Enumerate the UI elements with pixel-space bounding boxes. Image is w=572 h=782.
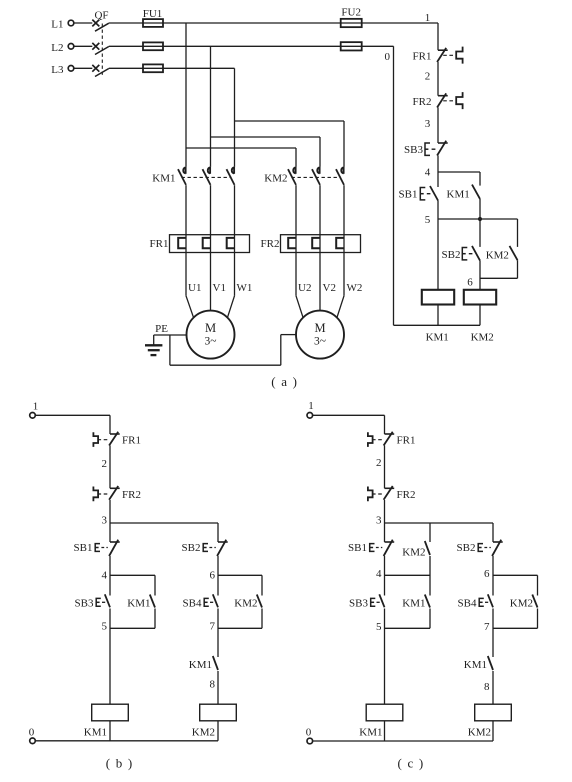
- svg-text:FR2: FR2: [413, 96, 432, 108]
- label SB3: [404, 144, 423, 156]
- pushbutton SB4 (c): [479, 594, 493, 607]
- svg-text:8: 8: [210, 678, 216, 690]
- wire node 3 (c): [385, 523, 494, 542]
- wire FR1 to motor M1: [186, 253, 235, 318]
- label SB1 (b): [74, 542, 93, 554]
- svg-text:M: M: [314, 321, 325, 335]
- svg-text:FU2: FU2: [341, 6, 361, 18]
- wire 4 (c): [384, 556, 386, 596]
- wire KM2 aux drop: [517, 219, 519, 247]
- contact KM1 interlock (c): [488, 656, 493, 670]
- wire drop phase A: [185, 23, 187, 167]
- svg-text:SB2: SB2: [442, 249, 461, 261]
- svg-text:L2: L2: [51, 42, 63, 54]
- breaker QF pole 1: [92, 20, 109, 32]
- node 7 label (c): [484, 621, 490, 633]
- svg-text:KM2: KM2: [192, 727, 215, 739]
- wire rail 2-3: [437, 108, 439, 144]
- wire L2 run: [163, 45, 341, 47]
- contactor KM1 main contact 2: [203, 167, 211, 185]
- wire 6 (c): [492, 556, 494, 596]
- wire coil KM2 bottom (b): [217, 721, 219, 741]
- svg-text:L1: L1: [51, 19, 63, 31]
- node 1 label (c): [308, 400, 314, 412]
- svg-text:SB2: SB2: [182, 542, 201, 554]
- wire 4 (b): [109, 556, 111, 596]
- wire node 3 (b): [110, 523, 218, 542]
- svg-text:PE: PE: [155, 323, 168, 335]
- label coil KM1 (b): [84, 727, 107, 739]
- svg-text:SB2: SB2: [457, 542, 476, 554]
- label KM2 aux (c): [510, 597, 533, 609]
- node 4 label (b): [102, 570, 108, 582]
- wire 5 (c): [384, 609, 386, 705]
- label KM1 contacts: [152, 173, 175, 185]
- contact KM2 aux (b): [257, 595, 262, 608]
- wire bottom (b): [35, 740, 218, 742]
- motor M1: [187, 311, 235, 359]
- motor M2: [296, 311, 344, 359]
- wire feed KM2 phase A: [186, 148, 296, 167]
- contactor KM1 linkage: [182, 176, 232, 178]
- coil KM1 (b): [92, 704, 129, 721]
- wire node 5 (c): [385, 609, 431, 629]
- wire 3 (b): [109, 500, 111, 542]
- label SB4 (b): [183, 597, 202, 609]
- node 6 label (b): [210, 570, 216, 582]
- svg-text:4: 4: [425, 167, 431, 179]
- fuse FU2 pole 2: [341, 42, 363, 50]
- contactor KM2 main contact 2: [312, 167, 320, 185]
- svg-text:SB1: SB1: [399, 189, 418, 201]
- svg-text:3~: 3~: [205, 336, 217, 348]
- label SB1 (c): [348, 542, 367, 554]
- svg-text:FR1: FR1: [122, 435, 141, 447]
- svg-text:2: 2: [376, 457, 382, 469]
- svg-text:5: 5: [376, 621, 382, 633]
- label coil KM1 (c): [359, 727, 382, 739]
- coil KM1: [422, 290, 454, 305]
- svg-text:KM1: KM1: [152, 173, 175, 185]
- svg-text:1: 1: [308, 400, 314, 412]
- svg-text:KM1: KM1: [402, 597, 425, 609]
- node 4 label (c): [376, 568, 382, 580]
- label V1: [213, 282, 226, 294]
- svg-text:( a ): ( a ): [271, 374, 298, 389]
- svg-text:0: 0: [29, 726, 35, 738]
- wire rail 0: [393, 46, 395, 325]
- label FU1: [143, 8, 163, 20]
- node 3 label: [425, 118, 431, 130]
- wire KM1 contact 1 to FR1: [185, 185, 187, 235]
- svg-text:2: 2: [102, 458, 108, 470]
- svg-text:FR2: FR2: [397, 489, 416, 501]
- node 1 label (b): [33, 401, 39, 413]
- node 8 label (c): [484, 681, 490, 693]
- svg-text:SB4: SB4: [458, 597, 477, 609]
- node 6 label (c): [484, 568, 490, 580]
- svg-text:KM1: KM1: [127, 597, 150, 609]
- contact KM1 interlock (b): [213, 656, 218, 670]
- svg-text:KM1: KM1: [447, 189, 470, 201]
- wire node 5 branch: [438, 199, 518, 219]
- node 0 label: [385, 51, 391, 63]
- label KM2 contacts: [264, 173, 287, 185]
- svg-text:U2: U2: [298, 282, 311, 294]
- svg-text:KM1: KM1: [464, 659, 487, 671]
- label U2: [298, 282, 311, 294]
- label FR2 contact: [413, 96, 432, 108]
- junction node 5: [478, 217, 482, 221]
- wire bottom (c): [313, 740, 494, 742]
- label FR1 heaters: [150, 238, 169, 250]
- wire 5 (b): [109, 609, 111, 705]
- wire 2 (b): [109, 446, 111, 489]
- breaker QF pole 2: [92, 43, 109, 55]
- svg-text:0: 0: [306, 726, 312, 738]
- svg-text:SB1: SB1: [74, 542, 93, 554]
- node 3 label (c): [376, 515, 382, 527]
- label FR2 heaters: [261, 238, 280, 250]
- svg-text:KM1: KM1: [426, 332, 449, 344]
- svg-text:0: 0: [385, 51, 391, 63]
- wire SB2 drop: [479, 219, 481, 247]
- wire coil KM2 bottom (c): [492, 721, 494, 741]
- pushbutton SB1: [420, 186, 438, 201]
- label FR2 (b): [122, 489, 141, 501]
- fuse FU1 pole 1: [143, 19, 163, 27]
- node 5 label: [425, 214, 431, 226]
- svg-text:QF: QF: [94, 9, 108, 21]
- contactor KM1 main contact 1: [178, 167, 186, 185]
- thermal contact FR1 (b): [93, 432, 119, 447]
- label SB4 (c): [458, 597, 477, 609]
- thermal relay FR1 heaters: [170, 235, 250, 253]
- svg-text:8: 8: [484, 681, 490, 693]
- wire top (c): [313, 415, 385, 434]
- label PE: [155, 323, 168, 335]
- wire 2 (c): [384, 446, 386, 489]
- pushbutton SB3 (b): [96, 594, 110, 607]
- wire L2 to rail 0: [362, 45, 394, 47]
- svg-text:L3: L3: [51, 64, 64, 76]
- svg-text:( b ): ( b ): [106, 756, 134, 771]
- svg-text:5: 5: [425, 214, 431, 226]
- terminal L2: [51, 42, 74, 54]
- label FR1 contact: [413, 51, 432, 63]
- svg-text:3: 3: [425, 118, 431, 130]
- wire 8 (b): [217, 671, 219, 704]
- pushbutton SB4 (b): [204, 594, 218, 607]
- terminal 1 (b): [30, 413, 36, 419]
- svg-text:4: 4: [376, 568, 382, 580]
- label KM1 aux: [447, 189, 470, 201]
- svg-text:KM2: KM2: [471, 331, 494, 343]
- pushbutton SB2: [462, 246, 480, 261]
- svg-text:FU1: FU1: [143, 8, 163, 20]
- node 6 label: [467, 277, 473, 289]
- node 4 label: [425, 167, 431, 179]
- wire QF to FU1 L3: [109, 67, 143, 69]
- node 0 label (c): [306, 726, 312, 738]
- wire 7 (c): [492, 609, 494, 658]
- label W1: [237, 282, 253, 294]
- wire drop phase B: [210, 46, 212, 167]
- coil KM2 (b): [200, 704, 237, 721]
- svg-text:KM2: KM2: [264, 173, 287, 185]
- wire L3 run: [163, 67, 235, 69]
- wire node 6 branch (b): [218, 575, 262, 595]
- label coil KM2 (b): [192, 727, 215, 739]
- thermal contact FR1: [437, 47, 463, 64]
- svg-text:( c ): ( c ): [398, 756, 425, 771]
- pushbutton SB3 (c): [371, 594, 385, 607]
- svg-text:SB3: SB3: [75, 597, 94, 609]
- wire node 7 branch (b): [218, 609, 262, 629]
- terminal L1: [51, 19, 74, 31]
- svg-text:FR1: FR1: [413, 51, 432, 63]
- label V2: [323, 282, 336, 294]
- label KM1 aux (c): [402, 597, 425, 609]
- label coil KM2 (c): [468, 727, 491, 739]
- wire KM2 contact 2 to FR2: [319, 185, 321, 235]
- wire rail 4-5: [437, 201, 439, 290]
- svg-text:7: 7: [484, 621, 490, 633]
- wire node 4 branch (b): [110, 575, 155, 595]
- contactor KM2 linkage: [292, 176, 342, 178]
- wire node 7 branch (c): [493, 609, 538, 629]
- wire 6 (b): [217, 556, 219, 596]
- contact KM1 aux (b): [150, 595, 155, 608]
- label SB3 (b): [75, 597, 94, 609]
- wire L1 to QF: [74, 22, 93, 24]
- wire node 4 (c): [385, 556, 431, 596]
- fuse FU1 pole 3: [143, 64, 163, 72]
- caption (a): [271, 374, 298, 389]
- label SB2 (c): [457, 542, 476, 554]
- terminal 0 (c): [307, 738, 313, 744]
- label SB2: [442, 249, 461, 261]
- thermal contact FR2: [437, 92, 463, 109]
- label FR2 (c): [397, 489, 416, 501]
- svg-text:1: 1: [33, 401, 39, 413]
- wire rail 1: [437, 23, 439, 50]
- svg-text:V1: V1: [213, 282, 226, 294]
- wire coil KM1 bottom: [437, 305, 439, 326]
- node 0 label (b): [29, 726, 35, 738]
- node 3 label (b): [102, 515, 108, 527]
- svg-text:KM1: KM1: [84, 727, 107, 739]
- node 5 label (b): [102, 621, 108, 633]
- thermal contact FR2 (c): [368, 486, 394, 501]
- node 7 label (b): [210, 621, 216, 633]
- svg-text:FR1: FR1: [397, 435, 416, 447]
- svg-text:6: 6: [484, 568, 490, 580]
- wire drop phase C: [234, 68, 236, 167]
- label KM2 aux (b): [234, 597, 257, 609]
- pushbutton SB1 (b): [95, 540, 120, 556]
- svg-text:KM1: KM1: [359, 727, 382, 739]
- pushbutton SB1 (c): [370, 540, 395, 556]
- ground PE: [145, 335, 162, 355]
- svg-text:5: 5: [102, 621, 108, 633]
- contact KM2 aux: [510, 246, 518, 260]
- node 1 label: [425, 12, 431, 24]
- wire node 4 branch: [438, 172, 480, 186]
- caption (c): [398, 756, 425, 771]
- contact KM1 aux: [472, 185, 480, 199]
- wire QF to FU1 L1: [109, 22, 143, 24]
- caption (b): [106, 756, 134, 771]
- label KM1 interlock (b): [189, 659, 212, 671]
- svg-text:V2: V2: [323, 282, 336, 294]
- wire coil KM1 bottom (c): [384, 721, 386, 741]
- breaker QF linkage: [101, 24, 103, 77]
- wire PE to M2: [170, 335, 296, 366]
- svg-text:FR2: FR2: [122, 489, 141, 501]
- wire node 6 branch (c): [493, 575, 538, 595]
- wire KM1 contact 3 to FR1: [234, 185, 236, 235]
- wire feed KM2 phase B: [211, 137, 321, 167]
- node 2 label (b): [102, 458, 108, 470]
- wire FR2 to motor M2: [296, 253, 344, 318]
- svg-text:KM1: KM1: [189, 659, 212, 671]
- terminal 1 (c): [307, 413, 313, 419]
- label KM2 aux: [486, 249, 509, 261]
- svg-text:6: 6: [467, 277, 473, 289]
- label W2: [347, 282, 363, 294]
- label coil KM2: [471, 331, 494, 343]
- svg-text:W2: W2: [347, 282, 363, 294]
- wire KM2 contact 1 to FR2: [295, 185, 297, 235]
- svg-text:SB1: SB1: [348, 542, 367, 554]
- wire node 5 branch (b): [110, 609, 155, 629]
- wire rail 3-4: [437, 156, 439, 188]
- wire top (b): [35, 415, 110, 434]
- label FR1 (c): [397, 435, 416, 447]
- wire feed KM2 phase C: [235, 121, 345, 167]
- node 8 label (b): [210, 678, 216, 690]
- thermal contact FR2 (b): [93, 486, 119, 501]
- svg-text:KM2: KM2: [468, 727, 491, 739]
- contactor KM1 main contact 3: [227, 167, 235, 185]
- fuse FU2 pole 1: [341, 19, 363, 27]
- contactor KM2 main contact 3: [336, 167, 344, 185]
- pushbutton SB2 (c): [478, 540, 503, 556]
- svg-text:U1: U1: [188, 282, 201, 294]
- node 2 label: [425, 71, 431, 83]
- contact KM2 aux (c): [532, 595, 537, 608]
- svg-text:FR2: FR2: [261, 238, 280, 250]
- svg-text:KM2: KM2: [402, 547, 425, 559]
- label KM1 aux (b): [127, 597, 150, 609]
- svg-text:2: 2: [425, 71, 431, 83]
- coil KM2: [464, 290, 496, 305]
- wire L3 to QF: [74, 67, 93, 69]
- fuse FU1 pole 2: [143, 42, 163, 50]
- wire node 6 to coil: [479, 261, 481, 290]
- svg-text:7: 7: [210, 621, 216, 633]
- wire rail 1-2: [437, 62, 439, 96]
- wire KM2 branch drop (c): [429, 523, 431, 542]
- wire PE to M1: [154, 334, 187, 336]
- label SB2 (b): [182, 542, 201, 554]
- node 5 label (c): [376, 621, 382, 633]
- wire bottom return: [394, 324, 481, 326]
- label U1: [188, 282, 201, 294]
- svg-text:KM2: KM2: [510, 597, 533, 609]
- label coil KM1: [426, 332, 449, 344]
- svg-text:6: 6: [210, 570, 216, 582]
- thermal contact FR1 (c): [368, 432, 394, 447]
- svg-text:KM2: KM2: [234, 597, 257, 609]
- svg-text:M: M: [205, 321, 216, 335]
- label SB1: [399, 189, 418, 201]
- wire 8 (c): [492, 671, 494, 704]
- svg-text:SB3: SB3: [404, 144, 423, 156]
- svg-text:3: 3: [376, 515, 382, 527]
- coil KM1 (c): [366, 704, 403, 721]
- svg-text:4: 4: [102, 570, 108, 582]
- svg-text:FR1: FR1: [150, 238, 169, 250]
- contact KM2 aux upper (c): [425, 541, 430, 555]
- contactor KM2 main contact 1: [288, 167, 296, 185]
- wire coil KM1 bottom (b): [109, 721, 111, 741]
- label KM1 interlock (c): [464, 659, 487, 671]
- pushbutton SB3: [425, 141, 448, 156]
- svg-text:SB4: SB4: [183, 597, 202, 609]
- svg-text:SB3: SB3: [349, 597, 368, 609]
- svg-text:3~: 3~: [314, 336, 326, 348]
- wire KM1 contact 2 to FR1: [210, 185, 212, 235]
- svg-text:3: 3: [102, 515, 108, 527]
- coil KM2 (c): [475, 704, 512, 721]
- wire QF to FU1 L2: [109, 45, 143, 47]
- wire KM2 contact 3 to FR2: [343, 185, 345, 235]
- wire L1 to rail 1: [362, 22, 438, 24]
- terminal 0 (b): [30, 738, 36, 744]
- contact KM1 aux (c): [425, 595, 430, 608]
- svg-text:1: 1: [425, 12, 431, 24]
- wire L2 to QF: [74, 45, 93, 47]
- breaker QF pole 3: [92, 65, 109, 77]
- label SB3 (c): [349, 597, 368, 609]
- svg-text:W1: W1: [237, 282, 253, 294]
- thermal relay FR2 heaters: [281, 235, 361, 253]
- wire coil KM2 bottom: [479, 305, 481, 326]
- wire 3 (c): [384, 500, 386, 542]
- label KM2 aux upper (c): [402, 547, 425, 559]
- wire L1 run: [163, 22, 341, 24]
- label FU2: [341, 6, 361, 18]
- wire 7 (b): [217, 609, 219, 658]
- pushbutton SB2 (b): [203, 540, 228, 556]
- wire KM2 aux return: [480, 260, 518, 278]
- node 2 label (c): [376, 457, 382, 469]
- terminal L3: [51, 64, 74, 76]
- svg-text:KM2: KM2: [486, 249, 509, 261]
- label FR1 (b): [122, 435, 141, 447]
- label QF: [94, 9, 108, 21]
